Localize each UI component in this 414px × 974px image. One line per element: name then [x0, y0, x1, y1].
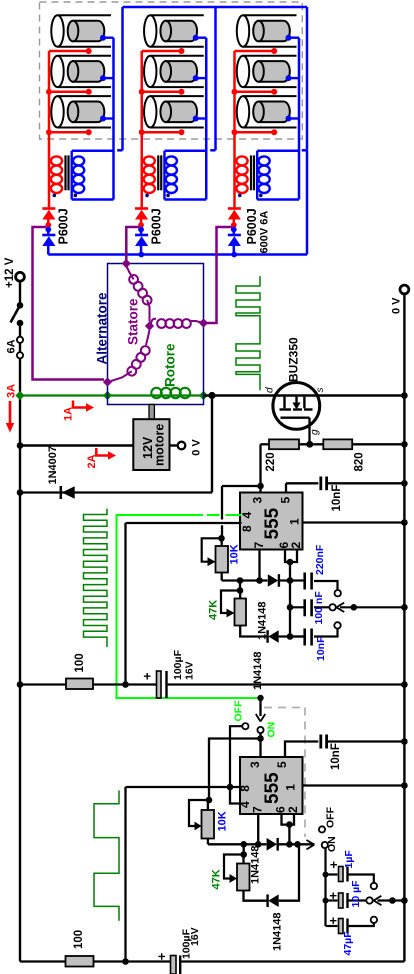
- wire (A-stub T3): [302, 149, 307, 152]
- wire (cell 2.1 to blue bus): [196, 37, 207, 39]
- node (green diamond at box right): [199, 391, 208, 400]
- wire (cell 2.2 to blue bus): [196, 77, 207, 79]
- wire (red branch 2 group 3): [235, 91, 275, 94]
- capacitor cell 2.1: [150, 14, 204, 16]
- dashed enclosure (cell bank): [40, 2, 303, 139]
- capacitor cell 3.3: [243, 95, 297, 97]
- terminal 0V (top right): [400, 285, 409, 294]
- alternator box: [108, 264, 204, 405]
- wire (rotor supply green): [20, 394, 204, 396]
- capacitor cell 3.2: [243, 55, 297, 57]
- wire (modulation link green): [117, 515, 261, 698]
- svg-text:8: 8: [240, 525, 254, 532]
- svg-text:+: +: [326, 861, 341, 869]
- wire (secondary top edge T1): [72, 150, 114, 153]
- wire (secondary top edge T3): [257, 150, 299, 153]
- capacitor C 10nF (pin5 block2): [285, 742, 318, 758]
- wire (red branch 1 group 1): [49, 50, 89, 53]
- capacitor C 10uF: [326, 899, 338, 901]
- svg-text:4: 4: [240, 512, 254, 519]
- wire (secondary bottom edge T3): [257, 198, 299, 201]
- terminal 0V (motor): [178, 442, 186, 450]
- wire (cell 1.1 to blue bus): [103, 37, 114, 39]
- junction dots on left rail: [17, 442, 24, 449]
- svg-text:10nF: 10nF: [330, 743, 342, 770]
- selector wiper block1: [340, 606, 404, 608]
- wire (cell 3.1 to blue bus): [289, 37, 300, 39]
- capacitor cell 3.1: [243, 14, 297, 16]
- wire (red branch 1 group 2): [142, 50, 182, 53]
- node D2 junction: [140, 227, 143, 235]
- diode 1N4148 a block2: [267, 838, 277, 851]
- wire (blue bus to alternator): [48, 253, 307, 256]
- svg-text:600V 6A: 600V 6A: [259, 211, 271, 254]
- wire (red branch 3 group 1): [49, 131, 89, 134]
- svg-text:OFF: OFF: [233, 700, 245, 722]
- svg-text:820: 820: [354, 452, 366, 471]
- wire (V+ drop block1): [124, 523, 126, 685]
- waveform W1 (drain): [236, 276, 260, 390]
- svg-text:Rotore: Rotore: [163, 343, 178, 387]
- svg-text:OFF: OFF: [325, 806, 337, 828]
- resistor R 100 block1: [20, 683, 66, 685]
- transistor Q1 BUZ350: [273, 383, 320, 430]
- svg-text:Statore: Statore: [126, 298, 141, 345]
- wire (blue cell bus group 3): [298, 38, 301, 200]
- capacitor cell 1.1: [58, 14, 112, 16]
- svg-text:1A: 1A: [63, 407, 75, 421]
- wire (pins 2-6 block1): [285, 550, 297, 563]
- wire (pin4 block2): [230, 787, 240, 804]
- waveform W3 (block2 output): [94, 790, 119, 920]
- capacitor C 10nF (pin5 block1): [285, 483, 287, 492]
- wire (blue cell bus group 2): [205, 38, 208, 200]
- svg-text:+: +: [326, 892, 341, 900]
- gray dashed gang link: [264, 707, 305, 709]
- diode D2b P600J (blue): [135, 234, 148, 237]
- wire (pin3 to 220): [259, 444, 261, 492]
- diode 1N4148 a block1: [268, 574, 278, 587]
- capacitor C 1uF: [326, 873, 338, 875]
- capacitor C 100uF 16V block2: [171, 956, 177, 974]
- svg-text:P600J: P600J: [57, 208, 71, 244]
- wire (line1 block1): [222, 579, 268, 581]
- svg-text:2: 2: [286, 806, 300, 813]
- diode D3a P600J (red): [228, 207, 241, 210]
- diode D1a P600J (red): [42, 207, 55, 210]
- resistor R 100 block2: [20, 960, 66, 962]
- svg-text:8: 8: [238, 785, 252, 792]
- wire (cell 1.3 to blue bus): [103, 117, 114, 119]
- diode D1b P600J (blue): [42, 234, 55, 237]
- arrow 1A: [73, 401, 87, 408]
- capacitor cell 2.3: [150, 95, 204, 97]
- potentiometer 47K block2: [243, 844, 245, 854]
- svg-text:P600J: P600J: [245, 208, 259, 244]
- svg-text:g: g: [310, 429, 321, 435]
- wire (left rail): [19, 281, 21, 306]
- svg-text:s: s: [315, 388, 326, 393]
- svg-text:47K: 47K: [208, 600, 220, 620]
- terminal +12V: [16, 272, 25, 281]
- wire (pin7 block2): [257, 814, 259, 844]
- wire (blue cell bus group 1): [112, 38, 115, 200]
- svg-text:100: 100: [74, 653, 86, 672]
- svg-text:1N4148: 1N4148: [272, 912, 284, 951]
- wire (cell 2.3 to blue bus): [196, 117, 207, 119]
- polarity dots T3: [238, 194, 242, 198]
- wire (motor - lead): [170, 444, 178, 446]
- wire (rail below switch): [19, 323, 21, 961]
- wire (pin1 block1): [303, 521, 405, 523]
- transformer T3: [236, 156, 247, 165]
- wire (A-stub T2): [210, 149, 215, 152]
- wire (motor + lead): [20, 444, 133, 446]
- svg-text:+12 V: +12 V: [4, 257, 16, 288]
- wire (red branch 3 group 2): [142, 131, 182, 134]
- wire (drain down to flyback): [211, 396, 213, 493]
- wire (pin4 reset dashed green): [207, 514, 220, 516]
- svg-text:1: 1: [283, 784, 297, 791]
- wire (A vertical 3): [306, 7, 309, 150]
- svg-text:10nF: 10nF: [315, 636, 327, 661]
- wire (OFF contact to V+): [230, 726, 243, 787]
- svg-text:3A: 3A: [6, 384, 18, 398]
- diode 1N4007 flyback: [20, 491, 212, 493]
- svg-text:P600J: P600J: [150, 208, 164, 244]
- resistor R 220: [261, 443, 270, 445]
- wire (right rail 0V): [403, 294, 405, 962]
- timer U2 555: [240, 757, 303, 814]
- wire (ON to pin3 block2): [259, 733, 261, 757]
- svg-text:47K: 47K: [211, 869, 223, 889]
- wire (purple phase 2): [126, 227, 139, 262]
- arrow 3A: [9, 401, 12, 424]
- waveform W2 (pin3 square wave): [84, 509, 108, 647]
- svg-text:1: 1: [288, 518, 302, 525]
- stator coil B: [150, 319, 157, 327]
- capacitor C 47uF: [326, 925, 338, 927]
- diode 1N4148 b block1: [266, 630, 268, 643]
- wire (A vertical 2): [214, 7, 217, 150]
- rotor coil: [151, 388, 161, 398]
- wire (red bus group 3): [233, 51, 236, 208]
- motor shaft: [149, 405, 154, 420]
- resistor R 820: [323, 439, 352, 449]
- svg-text:2A: 2A: [86, 454, 98, 468]
- svg-text:7: 7: [252, 542, 266, 549]
- fuse 6A: [17, 337, 23, 343]
- svg-text:100 nF: 100 nF: [313, 591, 325, 625]
- svg-text:16V: 16V: [189, 927, 201, 946]
- svg-text:BUZ350: BUZ350: [287, 337, 301, 382]
- wire (line3 block2): [244, 891, 268, 901]
- wire (V+ drop block2): [124, 787, 126, 962]
- selector arrow block2 switch: [307, 840, 315, 845]
- svg-text:10nF: 10nF: [331, 485, 343, 512]
- wire (pin3 link left): [222, 485, 261, 487]
- node D3 junction: [233, 227, 236, 235]
- svg-text:3: 3: [250, 497, 264, 504]
- wire (cell 1.2 to blue bus): [103, 77, 114, 79]
- wire (pin3 link block2): [209, 739, 261, 801]
- wire (pin7 block1): [258, 550, 260, 581]
- svg-text:3: 3: [248, 761, 262, 768]
- capacitor C 220nF: [303, 573, 306, 590]
- svg-text:7: 7: [251, 806, 265, 813]
- wire (A vertical 1): [121, 7, 124, 150]
- stator coil C: [146, 330, 150, 345]
- svg-text:220: 220: [265, 452, 277, 471]
- wire (secondary bottom edge T1): [72, 198, 114, 201]
- wire (pin1 block2): [303, 784, 405, 786]
- svg-text:10 µF: 10 µF: [350, 880, 362, 908]
- polarity dots T1: [53, 194, 57, 198]
- wire (pin8 V+ line block1): [126, 522, 242, 524]
- wire (top blue link): [123, 6, 308, 9]
- stator coil A: [126, 266, 133, 279]
- capacitor C 10nF selector: [290, 635, 304, 637]
- transformer T1: [51, 156, 62, 165]
- wire (secondary top edge T2): [164, 150, 206, 153]
- potentiometer 47K block1: [239, 581, 241, 591]
- capacitor bank bus block2: [324, 848, 326, 927]
- svg-text:0 V: 0 V: [391, 297, 403, 314]
- polarity dots T2: [145, 194, 149, 198]
- node D1 junction: [47, 227, 50, 235]
- svg-text:220nF: 220nF: [314, 544, 326, 575]
- wire (line1 block2): [208, 843, 267, 845]
- svg-text:ON: ON: [266, 722, 278, 738]
- motor M1 12V motore: [133, 419, 169, 470]
- svg-text:100: 100: [73, 930, 85, 949]
- diode D3b P600J (blue): [228, 234, 241, 237]
- wire (drain line): [204, 394, 405, 396]
- capacitor cell 1.3: [58, 95, 112, 97]
- svg-text:10K: 10K: [217, 811, 229, 831]
- capacitor C 100uF 16V block1: [157, 671, 162, 698]
- svg-text:16V: 16V: [184, 661, 196, 680]
- svg-text:motore: motore: [153, 424, 167, 466]
- wire (red bus group 1): [48, 51, 51, 208]
- node (green diamond at box left): [103, 391, 112, 400]
- potentiometer 10K block1: [218, 535, 225, 542]
- svg-text:5: 5: [275, 761, 289, 768]
- wire (pins 2-6 block2): [282, 814, 295, 825]
- diode D2a P600J (red): [135, 207, 148, 210]
- svg-text:ON: ON: [326, 836, 338, 852]
- wire (gate): [308, 418, 310, 445]
- svg-text:47µF: 47µF: [342, 931, 354, 956]
- wire (V+ line block2): [126, 786, 241, 788]
- capacitor cell 2.2: [150, 55, 204, 57]
- svg-text:+: +: [140, 672, 155, 680]
- svg-text:2: 2: [289, 542, 303, 549]
- capacitor cell 1.2: [58, 55, 112, 57]
- svg-text:Alternatore: Alternatore: [95, 292, 110, 365]
- capacitor C 100nF: [290, 606, 304, 608]
- svg-text:6A: 6A: [6, 339, 18, 353]
- wire (purple phase 1): [33, 227, 105, 380]
- wire (red branch 3 group 3): [235, 131, 275, 134]
- wire (purple phase 3): [206, 227, 232, 323]
- transformer T2: [144, 156, 155, 165]
- potentiometer 10K block2: [206, 797, 213, 804]
- wire (red branch 2 group 1): [49, 91, 89, 94]
- switch S1: [17, 302, 24, 309]
- switch S2 ON/OFF: [257, 695, 263, 701]
- wire (red branch 2 group 2): [142, 91, 182, 94]
- node (green diamond at rail): [15, 391, 24, 400]
- wire (cell 3.2 to blue bus): [289, 77, 300, 79]
- svg-text:d: d: [265, 387, 276, 393]
- svg-text:100µF: 100µF: [172, 649, 184, 680]
- svg-text:555: 555: [262, 507, 283, 539]
- node stator diamonds: [122, 259, 131, 268]
- svg-text:5: 5: [278, 497, 292, 504]
- svg-text:10K: 10K: [229, 544, 241, 564]
- diode 1N4148 b block2: [266, 894, 268, 907]
- arrow head points right toward ON contact: [322, 842, 328, 848]
- timer U1 555: [240, 493, 303, 550]
- selector wiper block2 caps: [378, 899, 405, 901]
- svg-text:1µF: 1µF: [343, 850, 355, 869]
- wire (line3 block1): [240, 626, 267, 637]
- wire (secondary bottom edge T2): [164, 198, 206, 201]
- wire (A3 vertical lower): [306, 150, 309, 254]
- svg-text:555: 555: [262, 772, 283, 804]
- arrow 2A: [96, 448, 109, 456]
- svg-text:+: +: [154, 952, 169, 960]
- svg-text:0 V: 0 V: [191, 439, 203, 456]
- wire (red branch 1 group 3): [235, 50, 275, 53]
- svg-text:1N4148: 1N4148: [250, 845, 262, 884]
- wire (red bus group 2): [141, 51, 144, 208]
- wire (A-stub T1): [117, 149, 122, 152]
- svg-text:+: +: [326, 917, 341, 925]
- svg-text:1N4007: 1N4007: [47, 446, 59, 485]
- wire (cell 3.3 to blue bus): [289, 117, 300, 119]
